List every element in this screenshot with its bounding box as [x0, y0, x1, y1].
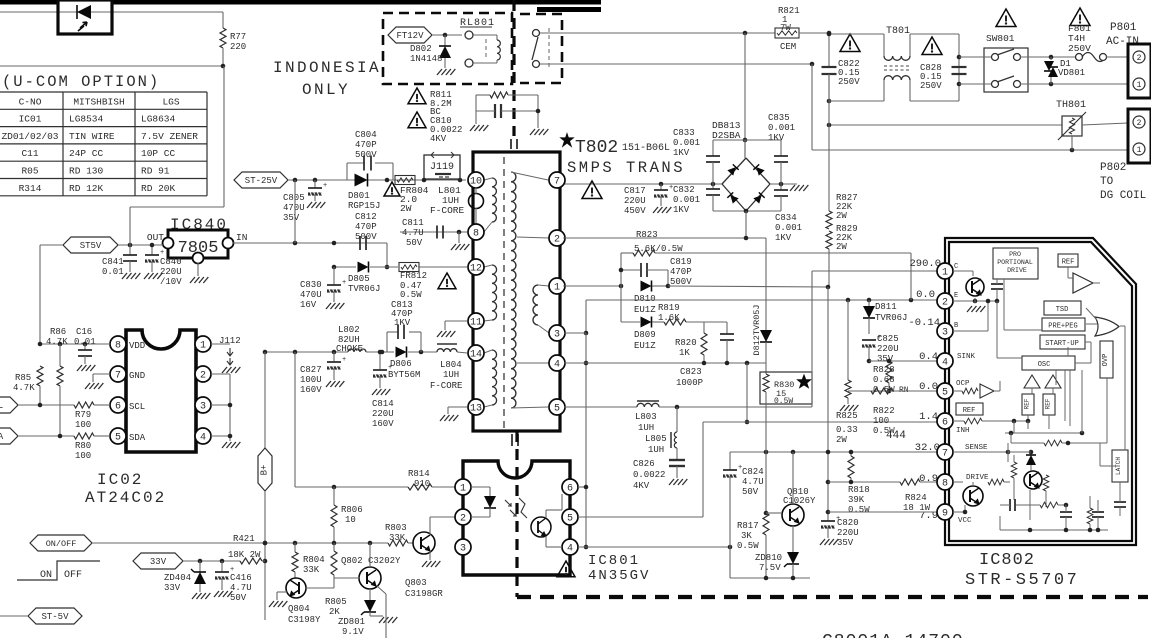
snubber R823	[620, 253, 622, 286]
warning triangle	[408, 112, 426, 128]
svg-text:7: 7	[554, 176, 560, 187]
T802 pin 1	[549, 278, 565, 294]
svg-text:6: 6	[115, 401, 121, 412]
svg-text:16V: 16V	[300, 300, 317, 310]
amp triangle	[1073, 273, 1093, 293]
svg-text:TVR06J: TVR06J	[875, 313, 907, 323]
svg-text:1UH: 1UH	[648, 445, 664, 455]
wire pin5 T802 row L803	[564, 406, 637, 408]
svg-text:1.6K: 1.6K	[658, 313, 680, 323]
svg-text:220: 220	[230, 42, 246, 52]
svg-text:R85: R85	[15, 373, 31, 383]
svg-text:LGS: LGS	[162, 96, 179, 107]
capacitor C828	[952, 66, 967, 68]
svg-text:0.0: 0.0	[916, 289, 935, 301]
svg-text:OVP: OVP	[1102, 354, 1110, 367]
svg-text:1000P: 1000P	[676, 378, 703, 388]
internal cap	[991, 283, 1003, 285]
T802 pin 3	[549, 325, 565, 341]
svg-text:3K: 3K	[741, 531, 752, 541]
relay contact box dashed	[520, 14, 562, 83]
diode D805	[334, 266, 356, 268]
svg-text:1UH: 1UH	[638, 423, 654, 433]
svg-text:0.001: 0.001	[768, 123, 795, 133]
svg-text:6: 6	[567, 483, 573, 494]
ground	[222, 367, 227, 373]
IC802 pin 7	[937, 444, 953, 460]
svg-text:OUT: OUT	[147, 232, 164, 243]
svg-text:STR-S5707: STR-S5707	[965, 571, 1079, 590]
isolation dashed line lower	[515, 431, 518, 597]
tag SDA	[0, 428, 18, 444]
relay contact	[533, 30, 540, 37]
IC802 pin 2	[937, 293, 953, 309]
svg-text:LG8634: LG8634	[141, 114, 176, 125]
wire	[377, 586, 386, 594]
T802 pin 11	[468, 313, 484, 329]
svg-text:DG COIL: DG COIL	[1100, 190, 1146, 202]
ground	[269, 601, 274, 607]
svg-text:10: 10	[345, 515, 356, 525]
internal drive transistor	[963, 486, 983, 506]
svg-text:8: 8	[473, 228, 479, 239]
optocoupler IC801 body	[463, 461, 570, 575]
ground	[653, 207, 658, 213]
svg-text:C416: C416	[230, 573, 252, 583]
svg-text:0.5W: 0.5W	[848, 505, 870, 515]
svg-text:1: 1	[1137, 146, 1142, 155]
resistor FR812	[399, 263, 419, 272]
svg-text:7.5V: 7.5V	[759, 563, 781, 573]
svg-text:LG8534: LG8534	[69, 114, 104, 125]
IC802 pin 3	[937, 323, 953, 339]
svg-text:R314: R314	[19, 183, 42, 194]
ground	[190, 277, 195, 283]
wire pin13 ground	[448, 406, 467, 408]
capacitor C824	[723, 469, 737, 471]
svg-text:-0.14: -0.14	[908, 317, 940, 329]
internal resistor 2	[1043, 475, 1049, 491]
svg-text:1KV: 1KV	[775, 233, 792, 243]
svg-text:0.5W: 0.5W	[737, 541, 759, 551]
photo-diode D	[60, 11, 108, 13]
svg-text:C825: C825	[877, 334, 899, 344]
TSD box	[1044, 301, 1081, 315]
wire pin2 T802 row	[563, 237, 766, 239]
svg-text:100: 100	[873, 416, 889, 426]
tag ST5V	[63, 237, 118, 253]
svg-text:8: 8	[115, 340, 121, 351]
svg-text:TO: TO	[1100, 176, 1114, 188]
svg-text:R817: R817	[737, 521, 759, 531]
zener ZD801	[369, 589, 371, 600]
OSC box	[1022, 356, 1075, 370]
svg-text:INDONESIA: INDONESIA	[273, 59, 381, 77]
T802 pin 10	[468, 172, 484, 188]
svg-text:FT12V: FT12V	[396, 31, 424, 41]
capacitor C823	[726, 322, 728, 334]
svg-text:13: 13	[470, 403, 482, 414]
svg-text:2W: 2W	[836, 435, 847, 445]
svg-text:C805: C805	[283, 193, 305, 203]
svg-text:1KV: 1KV	[673, 148, 690, 158]
internal diode	[1030, 452, 1032, 455]
svg-text:C833: C833	[673, 128, 695, 138]
svg-text:7W: 7W	[780, 23, 791, 33]
svg-text:5: 5	[554, 403, 560, 414]
inductor L805	[676, 407, 678, 432]
wire	[713, 139, 781, 141]
svg-text:910: 910	[414, 479, 430, 489]
svg-text:2K: 2K	[329, 607, 340, 617]
warning triangle	[384, 182, 400, 196]
resistor R820	[701, 333, 707, 355]
REF small boxes	[1022, 394, 1034, 415]
svg-text:RD 91: RD 91	[141, 166, 170, 177]
svg-text:220U: 220U	[877, 344, 899, 354]
IC801 pin 2	[455, 509, 471, 525]
svg-text:2W: 2W	[400, 203, 412, 214]
tag SCL	[0, 397, 18, 413]
wire drive row	[828, 481, 900, 483]
wire ocp row	[848, 390, 941, 392]
IC801 internal LED	[471, 486, 490, 488]
capacitor C811	[400, 231, 467, 233]
wire pin11 ground	[445, 320, 467, 322]
diode D809	[620, 286, 622, 322]
capacitor C813	[386, 332, 388, 352]
IC801 light arrows	[505, 500, 511, 506]
svg-text:3: 3	[460, 543, 466, 554]
wire pin1 T802 row	[563, 285, 621, 287]
svg-text:5: 5	[942, 387, 948, 398]
pin 3	[195, 397, 211, 413]
T802 pin 7	[549, 172, 565, 188]
svg-text:3: 3	[942, 327, 948, 338]
top border bar	[0, 0, 58, 5]
svg-text:220U: 220U	[372, 409, 394, 419]
wire	[18, 435, 74, 437]
T802 pin 4	[549, 355, 565, 371]
svg-text:2: 2	[554, 234, 560, 245]
wire	[0, 65, 223, 67]
svg-text:4KV: 4KV	[430, 134, 447, 144]
wire AC vertical	[744, 33, 746, 158]
ground	[372, 389, 377, 395]
diode D806	[396, 347, 407, 358]
svg-text:4N35GV: 4N35GV	[588, 568, 650, 584]
svg-text:24P CC: 24P CC	[69, 148, 104, 159]
svg-text:1: 1	[460, 483, 466, 494]
svg-text:R421: R421	[233, 534, 255, 544]
photo-diode box	[58, 0, 112, 34]
svg-text:+: +	[342, 279, 346, 287]
warning triangle	[1070, 8, 1090, 26]
svg-text:470U: 470U	[283, 203, 305, 213]
pin 7	[110, 366, 126, 382]
wire IN rail	[295, 242, 387, 244]
T802 primary winding 14-13	[484, 350, 492, 353]
svg-text:IC802: IC802	[979, 551, 1035, 570]
svg-text:SDA: SDA	[129, 433, 146, 443]
svg-text:ST5V: ST5V	[80, 241, 102, 251]
svg-text:0.0022: 0.0022	[633, 470, 665, 480]
svg-text:220U: 220U	[837, 528, 859, 538]
svg-text:220U: 220U	[624, 196, 646, 206]
svg-text:4: 4	[942, 357, 948, 368]
svg-text:SENSE: SENSE	[965, 444, 988, 452]
svg-text:ZD801: ZD801	[338, 617, 365, 627]
svg-text:+: +	[388, 364, 392, 372]
svg-text:REF: REF	[1045, 398, 1052, 409]
svg-text:C841: C841	[102, 257, 124, 267]
ground	[470, 125, 475, 131]
svg-text:R825: R825	[836, 411, 858, 421]
resistor R830	[760, 372, 812, 404]
svg-text:0.01: 0.01	[102, 267, 124, 277]
tag ST-25V	[234, 172, 288, 188]
ground	[214, 591, 219, 597]
bridge diodes	[727, 164, 738, 175]
svg-text:ON: ON	[40, 570, 52, 581]
svg-text:0.001: 0.001	[775, 223, 802, 233]
svg-text:R822: R822	[873, 406, 895, 416]
PRO PORTIONAL DRIVE box	[993, 248, 1038, 279]
capacitor C819	[621, 269, 640, 271]
internal wires right	[1055, 370, 1057, 385]
REF box	[1058, 254, 1078, 267]
svg-text:R77: R77	[230, 32, 246, 42]
wire sink row	[869, 360, 941, 362]
OCP amp	[953, 390, 962, 392]
svg-text:C11: C11	[21, 148, 38, 159]
svg-text:REF: REF	[1024, 398, 1031, 409]
wire pin3	[211, 404, 230, 406]
varistor VD801	[1049, 55, 1054, 60]
wire	[746, 363, 748, 422]
resistor R79	[74, 402, 94, 408]
svg-text:PORTIONAL: PORTIONAL	[997, 259, 1033, 266]
T802 secondary tap pin2	[517, 237, 549, 238]
ground	[77, 365, 82, 371]
svg-text:1KV: 1KV	[673, 205, 690, 215]
internal caps and resistors bottom	[1009, 499, 1011, 511]
svg-text:4: 4	[567, 543, 573, 554]
resistor R822	[871, 388, 893, 394]
zener ZD404	[199, 561, 201, 572]
svg-text:EU1Z: EU1Z	[634, 305, 656, 315]
svg-text:ST-5V: ST-5V	[41, 612, 69, 622]
ground	[379, 617, 384, 623]
inductor L801	[469, 194, 484, 209]
svg-text:0.001: 0.001	[673, 138, 700, 148]
resistor R829	[826, 231, 832, 249]
resistor R806	[333, 487, 335, 505]
svg-text:7: 7	[115, 370, 121, 381]
svg-text:2W: 2W	[836, 211, 847, 221]
capacitor C834	[780, 184, 782, 190]
wire	[18, 404, 74, 406]
tag FT12V	[388, 27, 432, 43]
svg-text:B: B	[954, 322, 958, 330]
wire	[197, 263, 199, 276]
svg-text:BYT56M: BYT56M	[388, 370, 420, 380]
svg-text:1: 1	[1137, 81, 1142, 90]
svg-text:33V: 33V	[150, 557, 167, 567]
wire pin4	[211, 435, 230, 437]
IC801 pin 4	[562, 539, 578, 555]
capacitor C833	[712, 140, 714, 156]
resistor R827	[828, 74, 830, 211]
svg-text:33K: 33K	[389, 533, 406, 543]
svg-text:D801: D801	[348, 191, 370, 201]
svg-text:2: 2	[942, 297, 948, 308]
svg-text:R80: R80	[75, 441, 91, 451]
svg-text:0.5W: 0.5W	[774, 397, 793, 406]
wire R814 row	[295, 486, 408, 488]
svg-text:P802: P802	[1100, 162, 1126, 174]
T802 secondary winding	[511, 172, 516, 408]
svg-text:50V: 50V	[406, 238, 423, 248]
svg-text:35V: 35V	[837, 538, 854, 548]
svg-text:SINK: SINK	[957, 353, 976, 361]
ground	[820, 539, 825, 545]
svg-text:100: 100	[75, 451, 91, 461]
warning triangle	[408, 88, 426, 104]
svg-text:+: +	[160, 249, 164, 257]
wire	[811, 271, 813, 407]
svg-text:160V: 160V	[372, 419, 394, 429]
resistor R818	[850, 452, 852, 456]
pin 1	[195, 336, 211, 352]
svg-text:EU1Z: EU1Z	[634, 341, 656, 351]
REF box ocp	[956, 403, 983, 415]
ground	[451, 244, 456, 250]
svg-text:ZD404: ZD404	[164, 573, 191, 583]
svg-text:C830: C830	[300, 280, 322, 290]
svg-text:1N4148: 1N4148	[410, 54, 442, 64]
svg-text:C820: C820	[837, 518, 859, 528]
svg-text:VCC: VCC	[958, 517, 972, 525]
svg-text:PRE+PEG: PRE+PEG	[1048, 323, 1077, 331]
capacitor C825	[862, 339, 876, 341]
T802 pin 5	[549, 399, 565, 415]
resistor R86	[59, 344, 61, 366]
wire	[92, 542, 388, 544]
svg-text:VDD: VDD	[129, 341, 145, 351]
capacitor C416	[221, 561, 223, 572]
wire bus top	[829, 100, 884, 102]
jumper J119	[424, 155, 460, 179]
resistor R821 CEM	[775, 28, 799, 38]
wire	[294, 352, 296, 487]
wire	[294, 180, 296, 243]
svg-text:470P: 470P	[355, 222, 377, 232]
wire	[811, 64, 813, 150]
svg-text:OCP: OCP	[956, 380, 970, 388]
svg-text:J119: J119	[430, 162, 454, 173]
isolation dashed line inside transformer	[503, 157, 505, 428]
IC802 pin 9	[937, 504, 953, 520]
tag ON/OFF	[30, 535, 92, 551]
PRE+REG box	[1042, 318, 1085, 331]
svg-text:1: 1	[942, 267, 948, 278]
svg-text:D802: D802	[410, 44, 432, 54]
svg-text:1KV: 1KV	[768, 133, 785, 143]
wire pin3 T802	[564, 332, 586, 334]
capacitor C810	[494, 104, 496, 118]
svg-text:TIN WIRE: TIN WIRE	[69, 131, 115, 142]
resistor R803	[388, 540, 408, 546]
resistor R825	[847, 300, 849, 380]
wire	[118, 244, 163, 246]
svg-text:1KV: 1KV	[394, 318, 411, 328]
svg-text:R814: R814	[408, 469, 430, 479]
isolation dashed line bottom	[517, 595, 1148, 599]
svg-text:RGP15J: RGP15J	[348, 201, 380, 211]
svg-text:SMPS TRANS: SMPS TRANS	[567, 159, 685, 177]
internal resistor	[1011, 462, 1017, 478]
pin 6	[110, 397, 126, 413]
capacitor C814	[379, 352, 381, 370]
svg-text:250V: 250V	[920, 81, 942, 91]
ground	[840, 405, 845, 411]
svg-text:C8001A 14700: C8001A 14700	[822, 632, 964, 638]
svg-text:T801: T801	[886, 26, 910, 37]
svg-text:50V: 50V	[742, 487, 759, 497]
svg-text:SCL: SCL	[129, 402, 145, 412]
svg-text:160V: 160V	[300, 385, 322, 395]
wire pin4 T802 row	[564, 362, 766, 364]
svg-text:500V: 500V	[355, 232, 377, 242]
INH row internals	[953, 420, 964, 422]
resistor R819	[664, 319, 686, 325]
svg-text:C16: C16	[76, 327, 92, 337]
svg-text:7.5V ZENER: 7.5V ZENER	[141, 131, 198, 142]
pin 8	[110, 336, 126, 352]
svg-text:PRO: PRO	[1009, 251, 1021, 258]
wire	[386, 243, 388, 267]
wire	[233, 242, 295, 244]
svg-text:4KV: 4KV	[633, 481, 650, 491]
svg-text:(U-COM OPTION): (U-COM OPTION)	[2, 73, 160, 91]
wire relay lower to P802	[540, 63, 812, 65]
svg-text:470P: 470P	[670, 267, 692, 277]
svg-text:100: 100	[75, 420, 91, 430]
svg-text:C819: C819	[670, 257, 692, 267]
svg-text:D806: D806	[390, 359, 412, 369]
transistor Q803	[408, 542, 413, 544]
table U-COM option	[0, 91, 207, 93]
svg-text:R806: R806	[341, 505, 363, 515]
diode D801	[355, 174, 368, 187]
capacitor C835	[780, 140, 782, 156]
svg-text:C811: C811	[402, 218, 424, 228]
capacitor C804	[346, 163, 348, 180]
wire	[729, 452, 731, 470]
svg-text:R818: R818	[848, 485, 870, 495]
svg-text:RD 20K: RD 20K	[141, 183, 176, 194]
T802 small winding 1-3	[533, 285, 538, 325]
ground	[307, 202, 312, 208]
svg-text:REF: REF	[963, 407, 976, 415]
svg-text:0.001: 0.001	[673, 195, 700, 205]
sense row internals	[953, 451, 1008, 453]
svg-text:C-NO: C-NO	[19, 96, 42, 107]
svg-text:VD801: VD801	[1058, 68, 1085, 78]
T802 pin 2	[549, 230, 565, 246]
connector P802	[1128, 109, 1151, 163]
